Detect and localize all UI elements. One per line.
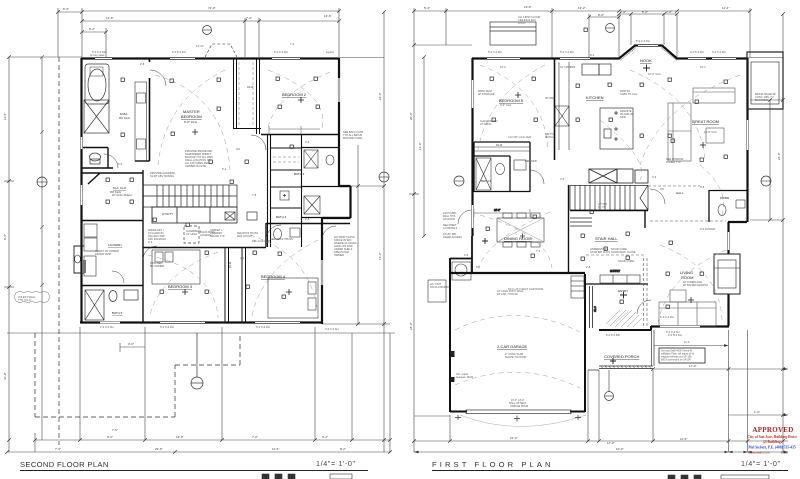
svg-text:6/2006: 6/2006: [760, 451, 770, 455]
title: second floor plan: [20, 459, 368, 471]
linen cabinets under rail: [152, 207, 237, 223]
extra note lines master bedroom: [185, 158, 211, 168]
kitchen island: [600, 108, 633, 149]
svg-text:APPROVED: APPROVED: [752, 426, 793, 434]
svg-text:5'-0 4'-0 DH: 5'-0 4'-0 DH: [256, 325, 270, 329]
covered porch east edge: [652, 330, 655, 366]
svg-text:SINK: SINK: [620, 115, 626, 119]
svg-text:DN: DN: [660, 187, 664, 191]
svg-text:17'-0": 17'-0": [607, 441, 615, 445]
left margin note block right plan: [443, 212, 462, 239]
interior dims / misc texts left plan: [118, 42, 310, 260]
window marks on right plan top wall: [487, 46, 736, 59]
property dashed line left: [58, 57, 60, 445]
svg-text:GREAT ROOM: GREAT ROOM: [692, 119, 719, 124]
svg-text:13'-0": 13'-0": [176, 435, 184, 439]
svg-text:9'-0" CLG: 9'-0" CLG: [184, 120, 198, 124]
svg-text:LOCATION: LOCATION: [443, 218, 455, 221]
clo + bath6 walls: [474, 142, 530, 192]
outer wall: left: [471, 58, 473, 236]
svg-text:5'-0 4'-0 DH: 5'-0 4'-0 DH: [274, 50, 288, 54]
garage door panel: [466, 410, 571, 414]
svg-text:BEDROOM: BEDROOM: [181, 114, 202, 119]
shower: [84, 100, 109, 133]
svg-text:16'-2: 16'-2: [700, 65, 706, 69]
bath4 sink: [290, 228, 300, 237]
svg-text:BATH 4: BATH 4: [276, 215, 287, 219]
extra plus marks right plan: [515, 92, 706, 303]
svg-text:5'-8: 5'-8: [700, 185, 705, 189]
svg-text:SOLID CORE: SOLID CORE: [618, 259, 634, 263]
svg-text:6'-2": 6'-2": [89, 27, 95, 31]
outer wall: right: [728, 58, 748, 326]
revision cloud around left note: [14, 292, 50, 303]
bath5 sink: [124, 290, 138, 300]
svg-text:OWNER ON SITE: OWNER ON SITE: [185, 164, 206, 168]
svg-text:AT OPNG: AT OPNG: [480, 122, 491, 126]
tag bubble below plan: [191, 333, 203, 389]
note box (bordered) near porch: [659, 348, 705, 363]
interior dims texts right plan: [464, 53, 706, 359]
svg-text:11'-4": 11'-4": [722, 6, 729, 10]
svg-text:5'-0: 5'-0: [476, 265, 481, 269]
svg-text:SEE ROOF TRUSS: SEE ROOF TRUSS: [270, 237, 293, 241]
svg-text:7'-4: 7'-4: [290, 42, 295, 46]
bedroom2 bottom wall: [261, 134, 339, 136]
svg-text:2'-8: 2'-8: [305, 217, 310, 221]
door arcs right plan: [458, 170, 665, 314]
outer wall: left: [80, 58, 82, 322]
electrical squares right plan: [486, 28, 727, 308]
powder room: [709, 190, 747, 222]
extra great room arcs: [600, 120, 724, 215]
entry north wall: [585, 283, 648, 285]
svg-text:W/ CAP, TYPICAL: W/ CAP, TYPICAL: [497, 292, 519, 296]
tub: [85, 64, 109, 104]
svg-text:TYP U.N.O.: TYP U.N.O.: [18, 298, 32, 302]
svg-text:CLO: CLO: [247, 85, 254, 89]
svg-text:17'-0": 17'-0": [689, 364, 697, 368]
living room bottom wall: [651, 325, 729, 327]
svg-text:7'-6": 7'-6": [112, 428, 118, 432]
svg-text:4'-0 5'-0 DH: 4'-0 5'-0 DH: [712, 50, 726, 54]
svg-text:3'-0 POCKET: 3'-0 POCKET: [700, 227, 716, 231]
scale bar boxes right: [668, 475, 769, 479]
svg-text:2'-0": 2'-0": [666, 10, 672, 14]
entry/porch south wall: [599, 326, 651, 330]
dimension line: right verticals: [747, 14, 783, 452]
svg-text:13'-6": 13'-6": [524, 5, 532, 9]
svg-text:4'-0 5'-0 DH: 4'-0 5'-0 DH: [690, 50, 704, 54]
linen closet shelf dashes: [273, 157, 299, 162]
svg-text:600 lb connected on UP134.: 600 lb connected on UP134.: [661, 359, 692, 362]
dim line above note box: [654, 345, 727, 347]
svg-text:DINING ROOM: DINING ROOM: [504, 236, 532, 241]
small note texts left plan: [18, 130, 364, 302]
svg-text:FIRST FLOOR PLAN: FIRST FLOOR PLAN: [432, 460, 554, 469]
bath3 shower: [304, 150, 318, 168]
hall note block: [148, 229, 258, 241]
scale bar boxes left: [262, 474, 352, 479]
svg-text:CABS TO CLG: CABS TO CLG: [620, 92, 637, 96]
svg-text:PWDR: PWDR: [720, 196, 730, 200]
outer wall: top: [81, 57, 339, 59]
svg-text:7'-6": 7'-6": [55, 447, 61, 451]
svg-text:@ 7.5": @ 7.5": [598, 205, 606, 209]
svg-text:3'-0: 3'-0: [464, 253, 469, 257]
svg-text:8'-2": 8'-2": [340, 447, 346, 451]
tag bubble left side: [37, 177, 47, 187]
svg-text:3'-0 4'-0 SH: 3'-0 4'-0 SH: [325, 327, 339, 331]
svg-text:14'-11": 14'-11": [196, 44, 204, 48]
svg-text:ROOM: ROOM: [681, 275, 693, 280]
bed in bedroom4: [268, 278, 318, 318]
garage water heater note: [428, 280, 446, 302]
buffet cabinet: [600, 275, 640, 283]
svg-text:BATH 6: BATH 6: [481, 179, 492, 183]
svg-text:3'-0: 3'-0: [305, 140, 310, 144]
outer wall: bottom: [80, 321, 323, 323]
svg-text:U.N.O.: U.N.O.: [518, 21, 526, 25]
dining table: [497, 213, 544, 247]
svg-text:BEDROOM 2: BEDROOM 2: [282, 92, 307, 97]
svg-text:21'-6": 21'-6": [378, 92, 382, 100]
svg-text:10'-0": 10'-0": [616, 447, 624, 451]
svg-text:UTILITY: UTILITY: [162, 212, 173, 216]
svg-text:2'-8: 2'-8: [140, 62, 145, 66]
svg-text:1'-6": 1'-6": [754, 410, 760, 414]
svg-text:ON PLATFORM: ON PLATFORM: [430, 285, 449, 289]
svg-text:BEDROOM 3: BEDROOM 3: [168, 284, 193, 289]
svg-text:6'-0 5'-0 DH: 6'-0 5'-0 DH: [172, 50, 186, 54]
svg-text:SLOPE TO DOOR: SLOPE TO DOOR: [505, 355, 527, 359]
dimension line: bottom rows: [7, 327, 395, 452]
room labels right plan: [481, 58, 730, 359]
svg-text:3'-0: 3'-0: [560, 177, 565, 181]
pwdr toilet: [718, 205, 726, 216]
plus marks left plan: [182, 97, 304, 295]
bath6 shower: [476, 158, 491, 190]
svg-text:BEDROOM 5: BEDROOM 5: [499, 98, 524, 103]
svg-text:3'-2": 3'-2": [322, 435, 328, 439]
svg-text:11'-0": 11'-0": [3, 113, 7, 120]
svg-text:21'-0": 21'-0": [777, 152, 781, 160]
arrows on bottom right dim line: [414, 368, 788, 454]
laundry bump-out with sink: [74, 246, 84, 273]
svg-text:5'-0 4'-0 DH: 5'-0 4'-0 DH: [636, 39, 650, 43]
tag bubble top left plan: [203, 26, 212, 35]
garage door label: [509, 399, 528, 408]
svg-text:BY OWNER: BY OWNER: [150, 264, 164, 268]
extra right plan notes: [478, 65, 717, 319]
dimension line: top row 2: [82, 18, 339, 57]
hall bottom wall: [143, 247, 266, 249]
dimension line: left second string: [40, 55, 44, 440]
svg-text:31'-0": 31'-0": [3, 372, 7, 380]
svg-text:MATCH: MATCH: [545, 135, 554, 139]
media niche bump great room: [747, 52, 783, 109]
svg-text:14'-2": 14'-2": [378, 252, 382, 260]
svg-text:LAUNDRY: LAUNDRY: [108, 243, 122, 247]
svg-text:20'-6": 20'-6": [409, 112, 413, 120]
interior wall: bedroom5 east: [554, 58, 556, 160]
svg-text:9'-0" CLG: 9'-0" CLG: [500, 103, 511, 107]
window marks bottom wall: [100, 322, 300, 324]
dashed bay below (roof of first floor bay): [205, 44, 237, 57]
bath5 walls: [142, 247, 144, 322]
W.C. wall + toilet: [81, 148, 113, 169]
svg-text:5'-3": 5'-3": [63, 7, 69, 11]
closet shelf lines: [474, 147, 530, 151]
svg-text:5'-0 4'-0 DH: 5'-0 4'-0 DH: [560, 50, 574, 54]
svg-text:CLO: CLO: [228, 261, 232, 268]
dashed lower outline (floor below): [35, 333, 240, 417]
svg-text:13'-6": 13'-6": [324, 14, 332, 18]
svg-text:11'-6: 11'-6: [684, 340, 690, 344]
svg-text:21'-0": 21'-0": [510, 436, 518, 440]
svg-text:BLOCKING: BLOCKING: [755, 98, 768, 102]
master closet walls: [81, 170, 143, 247]
svg-text:34-38" ABV NOSING: 34-38" ABV NOSING: [150, 174, 174, 178]
water heater closet: [452, 262, 471, 280]
svg-text:BEDROOM 4: BEDROOM 4: [261, 274, 286, 279]
plus marks (fans): [482, 65, 650, 365]
svg-text:CRAWL ACCESS: CRAWL ACCESS: [443, 236, 462, 239]
svg-text:8'-6": 8'-6": [598, 13, 604, 17]
svg-text:2-CAR GARAGE: 2-CAR GARAGE: [497, 344, 528, 349]
svg-text:10'-0" CLG: 10'-0" CLG: [704, 130, 717, 134]
bay window inner lines: [620, 48, 677, 61]
svg-text:BELOW, TYP: BELOW, TYP: [210, 235, 225, 238]
entry/living dashed boundary: [644, 258, 648, 327]
svg-text:w/ tmp glass: w/ tmp glass: [90, 53, 105, 57]
svg-text:6'-0: 6'-0: [118, 162, 123, 166]
svg-text:HALL: HALL: [676, 191, 684, 195]
door arcs: [104, 70, 336, 283]
svg-text:LIN: LIN: [236, 147, 240, 151]
dining/garage top wall: [450, 272, 585, 274]
svg-text:10'-0" CLG: 10'-0" CLG: [648, 72, 661, 76]
svg-text:CLO: CLO: [593, 305, 597, 312]
dimension line: top rows: [414, 8, 750, 58]
deck box above bedroom5: [490, 22, 536, 45]
kitchen counter: [555, 62, 569, 150]
svg-text:74'-0": 74'-0": [208, 6, 216, 10]
svg-text:5'-2: 5'-2: [222, 167, 227, 171]
small note texts right plan: [430, 15, 776, 296]
dim labels top: [63, 6, 332, 31]
washer dryer: [84, 224, 97, 276]
svg-text:7'-8: 7'-8: [252, 193, 257, 197]
svg-text:SECOND FLOOR PLAN: SECOND FLOOR PLAN: [20, 460, 109, 469]
fridge + ovens: [582, 64, 611, 75]
svg-text:DRYER VENT: DRYER VENT: [95, 252, 112, 256]
svg-text:9'-6": 9'-6": [3, 234, 7, 240]
bath4 toilet: [274, 229, 282, 240]
svg-text:ENTRY: ENTRY: [618, 289, 628, 293]
svg-text:A-5 DETAILS: A-5 DETAILS: [443, 227, 458, 230]
svg-text:16'-0 x 8'-0 SECT GAR DOOR: 16'-0 x 8'-0 SECT GAR DOOR: [508, 287, 543, 291]
stairs second floor: [143, 185, 237, 207]
dimension line: right verticals: [322, 12, 390, 452]
tag bubbles right plan: [454, 176, 771, 186]
garage NE steps: [571, 276, 584, 298]
svg-text:7'-4: 7'-4: [536, 249, 541, 253]
svg-text:7'-0": 7'-0": [252, 435, 258, 439]
fireplace living room: [714, 254, 740, 294]
svg-text:NOOK: NOOK: [640, 58, 652, 63]
svg-text:3'-6: 3'-6: [652, 175, 657, 179]
leader notes center hall: [150, 147, 270, 243]
stair hall walls: [569, 185, 649, 272]
extra texture texts: [112, 119, 684, 269]
dimension: bottom rows right plan: [414, 330, 788, 452]
electrical squares left plan: [106, 77, 319, 298]
bath3 walls: [301, 148, 351, 218]
svg-text:24'-0": 24'-0": [409, 322, 413, 330]
hall cabinet boxes: [225, 212, 257, 220]
svg-text:2'-8: 2'-8: [586, 265, 591, 269]
svg-text:30" REF: 30" REF: [545, 96, 555, 100]
svg-text:23'-0": 23'-0": [155, 447, 163, 451]
bath5 shower: [85, 290, 104, 320]
svg-text:DBL 2x10 HDR: DBL 2x10 HDR: [252, 239, 270, 243]
laundry bottom wall / bath5 top: [81, 285, 143, 287]
entry tile hatch: [606, 310, 642, 327]
bath6 toilet: [496, 164, 505, 175]
garage door swing arc: [460, 415, 586, 427]
svg-text:13'-2": 13'-2": [578, 6, 586, 10]
svg-text:MFR LAYOUT: MFR LAYOUT: [237, 235, 253, 238]
svg-text:City of San Jose, Building Div: City of San Jose, Building Divisi: [747, 435, 796, 439]
svg-text:5'-4": 5'-4": [424, 6, 430, 10]
svg-text:11'-6": 11'-6": [272, 447, 279, 451]
svg-text:13'-0": 13'-0": [418, 142, 422, 150]
closet between bed3/bed4: [225, 247, 246, 322]
hall/bath center column walls: [268, 134, 302, 247]
bath3 toilet: [326, 155, 334, 165]
svg-text:5'-0 4'-0 DH: 5'-0 4'-0 DH: [660, 315, 674, 319]
svg-text:GARAGE DOOR: GARAGE DOOR: [510, 405, 528, 408]
ceiling dashed ellipses right plan: [478, 65, 740, 322]
svg-text:COVERED PORCH: COVERED PORCH: [604, 354, 639, 359]
svg-text:1/4"= 1'-0": 1/4"= 1'-0": [741, 459, 781, 468]
svg-text:42" UPPERS: 42" UPPERS: [560, 65, 575, 69]
covered porch steps: [588, 366, 653, 370]
svg-text:1/4"= 1'-0": 1/4"= 1'-0": [316, 459, 356, 468]
bath6 bottom dim: [474, 209, 530, 217]
bedroom4 top wall: [266, 223, 350, 247]
stairs first floor: [570, 185, 648, 226]
bed in bedroom3: [152, 250, 200, 284]
title: first floor plan: [432, 459, 788, 471]
bath5 toilet: [109, 291, 117, 302]
svg-text:9'0 CLG: 9'0 CLG: [119, 116, 131, 120]
window marks on side walls left plan: [82, 78, 340, 285]
bath6 sink: [514, 160, 526, 170]
svg-text:DOOR SELF CLOSE: DOOR SELF CLOSE: [611, 250, 636, 254]
window size texts right plan: [488, 39, 726, 337]
wic X box: [304, 196, 320, 214]
interior wall: master bath east: [135, 58, 150, 161]
closet walls mid (bedroom2 closet): [233, 58, 261, 129]
room labels left plan: [108, 85, 307, 315]
svg-text:SCHED TYP: SCHED TYP: [666, 160, 681, 164]
outer wall: right (bedroom2 / bath3 jog): [322, 58, 351, 324]
ceiling dashed ellipses: [148, 70, 330, 318]
svg-text:12'-0: 12'-0: [500, 65, 506, 69]
entry west wall / garage east: [584, 274, 586, 330]
svg-text:5'-0 4'-0 DH: 5'-0 4'-0 DH: [488, 50, 502, 54]
porch step hatch: [601, 366, 651, 369]
svg-text:BUFFET: BUFFET: [610, 269, 621, 273]
svg-text:11'-6": 11'-6": [680, 437, 687, 441]
svg-text:Mel Siebert, P.E. (408) 535-43: Mel Siebert, P.E. (408) 535-435: [748, 446, 795, 450]
svg-text:W/ STORAGE: W/ STORAGE: [478, 92, 495, 96]
dimension line: top row 3: [82, 28, 106, 57]
svg-text:CRC R314/R315: CRC R314/R315: [148, 238, 167, 241]
svg-text:STAIR HALL: STAIR HALL: [595, 236, 618, 241]
svg-text:42" HIGH: 42" HIGH: [186, 232, 197, 236]
svg-text:13'-6": 13'-6": [106, 16, 114, 20]
svg-text:PED SINK: PED SINK: [525, 159, 537, 163]
tag bubble top right plan: [606, 24, 615, 33]
entry coat closet: [590, 286, 593, 328]
tag bubble right dim: [379, 172, 389, 182]
svg-text:9'-0: 9'-0: [590, 53, 595, 57]
attic access dashed box: [184, 226, 199, 243]
svg-text:W/ RAISED HEARTH: W/ RAISED HEARTH: [683, 283, 708, 287]
garage door ticks: [455, 415, 581, 422]
great room sofa: [668, 88, 735, 161]
outer wall: top with nook bay: [472, 46, 747, 59]
svg-text:BATH 5: BATH 5: [112, 311, 123, 315]
garage closet jog: [450, 236, 472, 272]
svg-text:KITCHEN: KITCHEN: [586, 95, 604, 100]
vanity counter: [135, 82, 147, 161]
svg-text:2'-0": 2'-0": [620, 10, 626, 14]
svg-text:CLO: CLO: [496, 143, 503, 147]
svg-text:clearance 30x36: clearance 30x36: [456, 376, 474, 379]
svg-text:5'-0 4'-0 DH: 5'-0 4'-0 DH: [160, 325, 174, 329]
window marks on top wall: [95, 58, 300, 60]
svg-text:36" ROD+SHELF: 36" ROD+SHELF: [112, 193, 133, 197]
dimension line: left verticals: [409, 45, 472, 452]
svg-text:21'-2": 21'-2": [494, 209, 500, 212]
garage interior arcs: [455, 315, 580, 388]
svg-text:6'-0 8'-0 DR: 6'-0 8'-0 DR: [606, 333, 620, 337]
svg-text:MIN PER CODE: MIN PER CODE: [343, 136, 362, 140]
living room sofa: [659, 290, 716, 326]
svg-text:2'-6 4'-0 SH: 2'-6 4'-0 SH: [100, 325, 114, 329]
svg-text:CLO 36" rod & shelf: CLO 36" rod & shelf: [508, 135, 531, 139]
svg-text:4'-1: 4'-1: [240, 256, 245, 260]
wall chase fill: [82, 260, 86, 273]
svg-text:GFI + panel: GFI + panel: [456, 374, 469, 376]
garage wall panel marks: [451, 351, 455, 382]
tag bubble below porch: [605, 370, 614, 401]
utility fixture box: [280, 191, 289, 200]
window marks on side walls right plan: [473, 80, 748, 327]
pwdr sink: [736, 200, 745, 208]
built-in desk boxes above stairs: [589, 169, 648, 183]
svg-text:8'-2": 8'-2": [107, 435, 113, 439]
dimension line: left vertical: [3, 57, 82, 452]
svg-text:BATH 3: BATH 3: [294, 172, 305, 176]
dimension line: top row 1: [58, 8, 339, 57]
svg-text:5'-0": 5'-0": [642, 10, 648, 14]
svg-text:STOR B/P CLOS: STOR B/P CLOS: [590, 250, 610, 254]
